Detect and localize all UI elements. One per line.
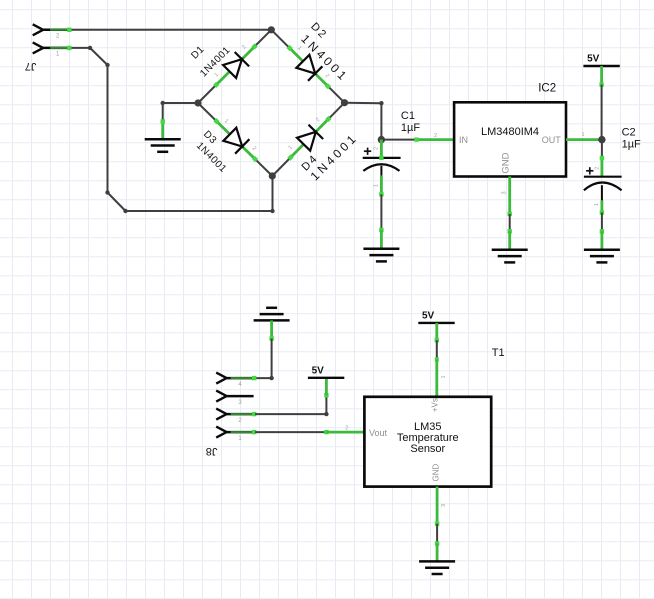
svg-text:5V: 5V	[422, 310, 435, 321]
svg-text:1: 1	[374, 184, 380, 187]
svg-text:C1: C1	[401, 110, 415, 122]
svg-text:1: 1	[581, 132, 584, 138]
svg-text:Sensor: Sensor	[410, 443, 445, 455]
svg-text:5V: 5V	[587, 54, 600, 65]
svg-text:1µF: 1µF	[622, 139, 641, 151]
svg-text:2: 2	[345, 426, 348, 432]
svg-text:C2: C2	[622, 127, 636, 139]
svg-text:GND: GND	[431, 463, 440, 481]
svg-text:J8: J8	[206, 445, 218, 457]
svg-text:Vout: Vout	[369, 428, 388, 438]
svg-text:+Vs: +Vs	[431, 398, 440, 412]
svg-text:T1: T1	[492, 347, 505, 359]
svg-text:1: 1	[441, 375, 447, 378]
svg-text:IN: IN	[459, 135, 468, 145]
svg-text:IC2: IC2	[538, 82, 556, 94]
svg-text:LM3480IM4: LM3480IM4	[481, 126, 539, 138]
svg-text:1: 1	[594, 203, 600, 206]
svg-text:2: 2	[434, 133, 437, 139]
svg-text:3: 3	[502, 191, 508, 194]
svg-text:2: 2	[595, 167, 601, 170]
svg-text:J7: J7	[25, 60, 37, 72]
svg-text:2: 2	[374, 147, 380, 150]
svg-text:OUT: OUT	[542, 135, 562, 145]
svg-text:1µF: 1µF	[401, 122, 420, 134]
svg-text:5V: 5V	[312, 365, 325, 376]
svg-text:GND: GND	[500, 152, 511, 173]
svg-text:3: 3	[441, 504, 447, 507]
